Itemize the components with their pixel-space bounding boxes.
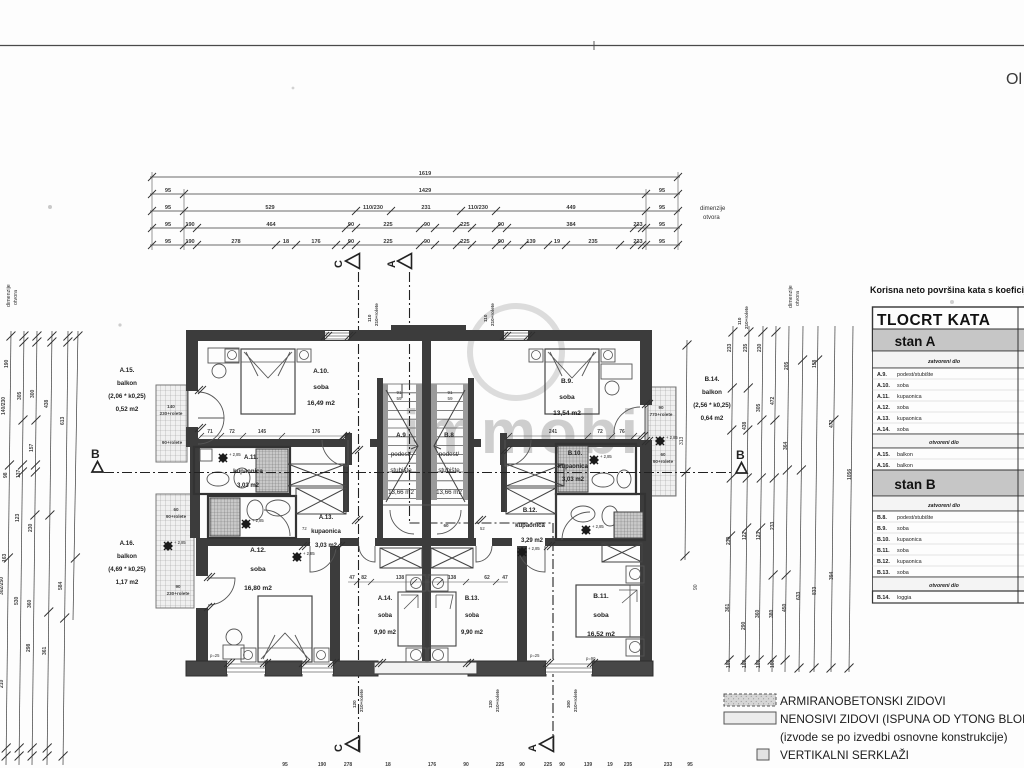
stair head numbers [396,390,453,401]
label balkon A.16 [108,540,146,586]
svg-text:190: 190 [185,222,194,228]
svg-text:305: 305 [756,403,762,412]
bed B.9 (double) [545,349,599,414]
svg-text:241: 241 [549,429,558,435]
svg-text:290: 290 [741,621,747,630]
svg-text:kupaonica: kupaonica [311,529,341,535]
bed B.11 (double, horizontal) [576,585,644,637]
label room A.12 [244,547,272,592]
svg-text:dimenzije: dimenzije [788,285,794,308]
section marker C (bottom) [333,737,360,753]
svg-text:balkon: balkon [117,380,137,387]
svg-text:235: 235 [624,762,633,768]
svg-text:B.8.: B.8. [877,515,887,521]
svg-text:soba: soba [465,613,480,619]
interior dim row B (241 72 76) [508,429,640,436]
svg-text:kupaonica: kupaonica [515,523,545,529]
door B.11 entry [518,546,545,572]
bathroom B.10 fixtures [592,473,614,487]
svg-text:Ol: Ol [1006,71,1022,88]
door stair landing A [390,510,414,534]
svg-text:0,52 m2: 0,52 m2 [116,406,139,413]
svg-text:kupaonica: kupaonica [233,469,263,475]
svg-text:176: 176 [311,239,320,245]
svg-text:soba: soba [897,383,909,389]
svg-text:123: 123 [15,513,21,522]
svg-text:19: 19 [554,239,560,245]
svg-text:438: 438 [742,421,748,430]
svg-text:B.12.: B.12. [523,508,538,514]
svg-text:16,49 m2: 16,49 m2 [307,400,335,407]
svg-text:soba: soba [559,394,575,401]
window/door frame left upper (balcony door A.15) [187,391,189,427]
svg-text:472: 472 [829,419,835,428]
svg-text:313: 313 [679,436,685,445]
svg-text:90: 90 [498,222,504,228]
outer wall left upper [186,330,198,391]
bed A.14 (single) [398,592,424,646]
table rows A.15 A.16 [873,448,1024,470]
svg-text:300: 300 [30,389,36,398]
svg-text:A.16.: A.16. [120,540,135,547]
svg-text:p=25: p=25 [530,653,540,658]
label bathroom A.13 [311,515,341,549]
svg-text:71: 71 [207,429,213,435]
wardrobe B hall 1 (x-box) [506,464,564,486]
door to A unit hallway [322,440,348,466]
svg-text:230: 230 [757,343,763,352]
svg-text:95: 95 [687,762,693,768]
wardrobe B.13 (x-box) [431,548,473,568]
svg-text:95: 95 [282,762,288,768]
interior dim row A.14/B.13 (138 90 138 62 47) [348,575,508,582]
svg-text:otvora: otvora [795,291,801,306]
hallway wall stub A [370,439,377,447]
section line A lower (dash-dot vertical) [552,523,554,750]
door A.12 entry [310,546,336,572]
section line C (dash-dot vertical) [358,272,360,750]
svg-text:110/230: 110/230 [363,205,383,211]
svg-text:205: 205 [784,361,790,370]
nightstand B.9 left [529,349,543,362]
svg-text:B.8: B.8 [444,432,454,439]
svg-text:zatvoreni dio: zatvoreni dio [927,359,960,365]
svg-text:138: 138 [448,575,457,581]
stair stringers [383,384,388,500]
svg-text:230: 230 [28,523,34,532]
svg-text:180: 180 [756,659,762,668]
svg-text:+ 2,85: + 2,85 [592,524,604,529]
outer wall left mid (bathrooms) [190,447,200,538]
svg-text:otvora: otvora [703,215,720,221]
svg-text:kupaonica: kupaonica [897,559,922,565]
svg-text:(izvode se po izvedbi osnovne: (izvode se po izvedbi osnovne konstrukci… [780,730,1008,744]
label balkon B.14 [693,376,731,422]
bed A.12 (double, vertical) [258,596,312,662]
svg-text:110/230: 110/230 [468,205,488,211]
chair A.10 [212,364,226,378]
svg-text:584: 584 [58,581,64,590]
stair treads flight B [431,384,468,498]
svg-text:A.14.: A.14. [877,427,890,433]
svg-text:235: 235 [588,239,597,245]
svg-text:438: 438 [44,399,50,408]
section marker A (bottom) [527,737,554,753]
svg-text:300: 300 [566,700,571,708]
svg-text:(4,69 * k0,25): (4,69 * k0,25) [108,566,146,573]
svg-text:kupaonica: kupaonica [558,464,588,470]
svg-text:90: 90 [693,584,699,590]
svg-text:soba: soba [897,427,909,433]
stair treads flight A [383,384,422,498]
door A.14 [359,546,375,562]
svg-text:233: 233 [727,343,733,352]
desk B.9 [601,364,632,379]
svg-text:soba: soba [897,526,909,532]
svg-text:123: 123 [756,531,762,540]
bed A.10 (double) [241,349,295,414]
svg-text:633: 633 [796,591,802,600]
svg-text:90+rolete: 90+rolete [162,440,183,445]
svg-text:balkon: balkon [897,463,913,469]
table rows A.9-A.14 [873,368,1024,434]
svg-text:278: 278 [231,239,240,245]
svg-text:90: 90 [348,239,354,245]
svg-text:podest/: podest/ [391,451,412,458]
svg-text:soba: soba [378,613,393,619]
svg-text:122: 122 [742,531,748,540]
nightstand A.10 right [297,349,311,362]
svg-text:233: 233 [664,762,673,768]
label B.8 podest/stubiste [436,432,462,496]
svg-text:361: 361 [725,603,731,612]
balcony A.15 (hatched) [156,385,187,462]
door B.9 balcony B.14 [614,407,640,433]
svg-text:60: 60 [660,452,666,457]
svg-text:95: 95 [659,205,665,211]
svg-text:A.11.: A.11. [244,455,258,461]
nightstand B.11 top [626,566,644,583]
nightstand B.11 bottom [626,639,644,656]
svg-text:otvoreni dio: otvoreni dio [929,583,959,589]
svg-text:140/230: 140/230 [1,397,7,415]
svg-text:384: 384 [566,222,576,228]
svg-text:podest/stubište: podest/stubište [897,372,933,378]
faint smudges [48,205,52,209]
svg-text:90: 90 [348,222,354,228]
partition B.13|B.11 [517,546,527,661]
table section zatvoreni dio (B) [873,496,1024,511]
svg-text:158: 158 [812,359,818,368]
svg-text:otvora: otvora [13,290,19,305]
svg-text:95: 95 [165,222,171,228]
svg-text:B.9.: B.9. [561,378,573,385]
svg-text:soba: soba [313,384,329,391]
table section otvoreni dio (A) [873,434,1024,448]
top wall window A side [325,331,349,340]
wardrobe B hall 2 (x-box) [506,488,556,514]
watermark circle logo [470,306,562,398]
door jamb post B entry [500,433,507,465]
level markers (+2,85 diamonds) [164,435,678,561]
svg-text:podest/stubište: podest/stubište [897,515,933,521]
svg-text:90: 90 [424,222,430,228]
door jamb post A entry [345,433,352,465]
bathroom B.12 fixtures [571,506,595,522]
svg-text:225: 225 [496,762,505,768]
svg-text:95: 95 [165,205,171,211]
window frame right (balcony door B.14) [644,405,646,440]
stair direction arrows flight A [386,384,418,502]
svg-text:210+rolete: 210+rolete [495,689,500,712]
door A.12 from balcony A.16 [208,578,235,605]
shower B.12 (hatched) [614,512,643,538]
svg-text:3,03 m2: 3,03 m2 [237,483,260,489]
svg-text:B.13.: B.13. [877,570,890,576]
svg-text:otvoreni dio: otvoreni dio [929,440,959,446]
wall below A.10 [198,439,346,447]
svg-text:90: 90 [175,584,181,589]
nightstand A.10 left [225,349,239,362]
svg-text:360: 360 [755,609,761,618]
svg-text:+ 2,85: + 2,85 [229,452,241,457]
svg-text:298: 298 [26,643,32,652]
svg-text:3,03 m2: 3,03 m2 [315,543,338,549]
svg-text:13,54 m2: 13,54 m2 [553,410,581,417]
svg-text:kupaonica: kupaonica [897,537,922,543]
svg-text:176: 176 [312,429,321,435]
shower A.13 (hatched) [210,498,240,536]
svg-text:76: 76 [619,429,625,435]
chain extension verticals [152,172,678,250]
outer wall left lower [196,538,208,576]
svg-text:B.14.: B.14. [705,376,720,383]
chair B.9 [605,381,619,395]
outer wall right [640,341,652,405]
svg-text:VERTIKALNI SERKLAŽI: VERTIKALNI SERKLAŽI [780,748,909,762]
table right column divider [1017,307,1019,603]
balcony depth dim line (313) [685,340,687,560]
svg-text:A.15.: A.15. [120,367,135,374]
wall below B.9 [505,439,640,447]
svg-text:A.11.: A.11. [877,394,890,400]
outer wall top [186,330,652,341]
svg-text:90+rolete: 90+rolete [653,459,674,464]
corridor stub wall B [501,465,507,512]
svg-text:360: 360 [27,599,33,608]
wall above A.12 / below A.13 [198,538,310,546]
svg-text:90: 90 [424,575,430,581]
svg-text:60: 60 [173,507,179,512]
svg-text:95: 95 [165,239,171,245]
svg-text:110: 110 [737,317,742,325]
stairwell left wall [377,378,383,546]
svg-text:NENOSIVI ZIDOVI (ISPUNA OD YTO: NENOSIVI ZIDOVI (ISPUNA OD YTONG BLOKOVA… [780,712,1024,726]
svg-text:B.12.: B.12. [877,559,890,565]
svg-text:230+rolete: 230+rolete [167,591,190,596]
table section otvoreni dio (B) [873,577,1024,591]
svg-text:210+rolete: 210+rolete [573,689,578,712]
svg-text:95: 95 [165,188,171,194]
top dimension chain block [148,171,682,249]
right bundle rotated labels [725,343,853,668]
svg-text:82: 82 [361,575,367,581]
svg-text:+ 2,85: + 2,85 [174,540,186,545]
svg-text:450: 450 [782,603,788,612]
svg-text:soba: soba [250,566,266,573]
svg-text:233: 233 [633,222,642,228]
svg-text:A.9: A.9 [396,432,406,439]
table row stan A [873,329,1024,351]
nightstand A.12 left [241,648,256,662]
bathroom A.13 outline [208,496,296,538]
svg-text:190: 190 [4,359,10,368]
left bundle rotated labels [0,359,66,688]
door to B unit hallway [505,440,531,466]
label A.9 podest/stubiste [388,432,414,496]
svg-text:kupaonica: kupaonica [897,394,922,400]
svg-text:140: 140 [167,404,175,409]
svg-text:210+rolete: 210+rolete [359,689,364,712]
svg-text:180: 180 [770,659,776,668]
svg-text:ARMIRANOBETONSKI ZIDOVI: ARMIRANOBETONSKI ZIDOVI [780,694,946,708]
svg-text:B.11.: B.11. [877,548,890,554]
svg-text:+ 2,85: + 2,85 [600,454,612,459]
svg-text:B: B [736,448,745,462]
svg-text:B.10.: B.10. [877,537,890,543]
wardrobe A hall 2 (x-box) [296,488,346,514]
svg-text:+ 2,85: + 2,85 [303,551,315,556]
svg-text:13,66 m2: 13,66 m2 [436,489,462,496]
wall above B.11 [492,538,512,546]
svg-text:110: 110 [367,314,372,322]
svg-text:balkon: balkon [897,452,913,458]
svg-text:613: 613 [60,416,66,425]
svg-text:190: 190 [185,239,194,245]
table row stan B [873,470,1024,496]
svg-text:464: 464 [266,222,276,228]
door bathroom A.13 [264,510,290,536]
door stair landing B [437,510,461,534]
bathroom B.10 outline [556,444,636,494]
svg-text:225: 225 [460,239,469,245]
svg-text:235: 235 [743,343,749,352]
balcony A.16 (hatched) [156,494,194,608]
svg-text:A: A [527,744,539,752]
label room A.14 [374,596,397,636]
svg-text:balkon: balkon [117,553,137,560]
svg-text:230+rolete: 230+rolete [160,411,183,416]
bathroom A.11 outline [194,447,290,494]
svg-text:A.14.: A.14. [378,596,393,602]
svg-text:p=25: p=25 [210,653,220,658]
svg-text:+ 2,85: + 2,85 [666,435,678,440]
svg-text:770+rolete: 770+rolete [650,412,673,417]
stair landing line [383,504,468,506]
svg-text:180: 180 [726,659,732,668]
svg-text:stan A: stan A [895,334,936,349]
svg-text:190: 190 [318,762,327,768]
svg-text:163: 163 [2,553,8,562]
svg-text:305: 305 [17,391,23,400]
svg-text:364: 364 [783,441,789,450]
svg-text:95: 95 [659,222,665,228]
svg-text:137: 137 [16,469,22,478]
svg-text:72: 72 [229,429,235,435]
svg-text:225: 225 [460,222,469,228]
svg-text:60: 60 [443,523,449,528]
svg-text:138: 138 [396,575,405,581]
table section zatvoreni dio (A) [873,351,1024,368]
svg-text:kupaonica: kupaonica [897,416,922,422]
svg-text:90: 90 [519,762,525,768]
section line A upper (dash-dot vertical) [409,272,411,523]
svg-text:120: 120 [352,700,357,708]
svg-text:soba: soba [593,612,609,619]
faint bottom dimension chain (cut at page edge) [282,762,693,768]
svg-text:139: 139 [526,239,535,245]
svg-text:A.12.: A.12. [877,405,890,411]
interior dim row A (71 72 145 176) [200,429,345,436]
bathroom A.13 fixtures [247,500,263,520]
svg-text:0,64 m2: 0,64 m2 [701,415,724,422]
legend box armiranobetonski (hatched) [724,694,776,706]
svg-text:394: 394 [829,571,835,580]
svg-text:210+rolete: 210+rolete [490,303,495,326]
svg-text:p=90: p=90 [586,656,596,661]
svg-text:361: 361 [42,646,48,655]
label bathroom B.10 [558,451,588,483]
svg-text:47: 47 [349,575,355,581]
label balkon A.15 [108,367,146,413]
svg-text:1619: 1619 [419,171,431,177]
left dimension line bundle [6,331,78,765]
svg-text:soba: soba [897,405,909,411]
svg-text:3,03 m2: 3,03 m2 [562,477,585,483]
svg-text:95: 95 [659,188,665,194]
svg-text:13,66 m2: 13,66 m2 [388,489,414,496]
svg-text:A.13.: A.13. [319,515,334,521]
wardrobe A.14 (x-box) [380,548,422,568]
svg-text:230: 230 [726,536,732,545]
svg-text:+ 2,85: + 2,85 [252,518,264,523]
svg-text:529: 529 [265,205,274,211]
svg-text:90: 90 [559,762,565,768]
svg-text:90: 90 [658,405,664,410]
svg-text:110: 110 [483,314,488,322]
table row B.14 loggia [873,591,1024,603]
svg-text:B: B [91,447,100,461]
lamps B.13 [428,575,448,591]
svg-text:A.15.: A.15. [877,452,890,458]
svg-text:90: 90 [498,239,504,245]
svg-text:1,17 m2: 1,17 m2 [116,579,139,586]
svg-text:472: 472 [770,396,776,405]
table rows B.8-B.13 [873,511,1024,577]
svg-text:C: C [333,260,345,268]
stair direction arrows flight B [434,390,465,502]
nightstand B.9 right [601,349,615,362]
desk A.10 [208,348,239,363]
svg-text:dimenzije: dimenzije [6,284,12,307]
legend box vertikalni serklazi [757,749,769,760]
bed B.13 (single) [430,592,456,646]
bottom center porch outline [374,662,477,674]
svg-text:52: 52 [480,526,485,531]
svg-text:soba: soba [897,570,909,576]
svg-text:530: 530 [14,596,20,605]
svg-text:210+rolete: 210+rolete [744,306,749,329]
